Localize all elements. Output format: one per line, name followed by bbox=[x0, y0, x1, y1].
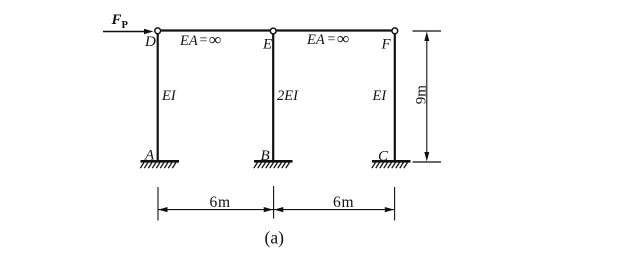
hinge at D bbox=[155, 28, 161, 34]
svg-text:A: A bbox=[144, 148, 155, 164]
vertical dimension 9m: extension ticks bbox=[413, 30, 442, 32]
svg-text:EI: EI bbox=[161, 88, 177, 104]
svg-text:P: P bbox=[122, 20, 129, 31]
arrowheads for first 6m span bbox=[158, 207, 167, 212]
svg-text:6m: 6m bbox=[333, 194, 354, 211]
svg-text:9m: 9m bbox=[414, 85, 430, 105]
svg-text:EA: EA bbox=[306, 32, 325, 48]
column D-A bbox=[157, 30, 159, 161]
svg-text:=: = bbox=[200, 33, 208, 48]
force FP arrow bbox=[103, 31, 146, 33]
column F-C bbox=[394, 30, 396, 161]
svg-text:F: F bbox=[381, 37, 392, 53]
svg-text:∞: ∞ bbox=[209, 30, 221, 49]
beam D-E-F (EA=infinity) bbox=[156, 29, 396, 31]
svg-text:EI: EI bbox=[372, 88, 388, 104]
svg-text:F: F bbox=[111, 12, 122, 28]
svg-text:E: E bbox=[262, 37, 272, 53]
vertical dimension 9m: line and arrows bbox=[426, 34, 428, 158]
ground support at A bbox=[140, 161, 179, 168]
svg-text:∞: ∞ bbox=[337, 29, 349, 48]
bottom dimension extension ticks bbox=[157, 187, 159, 221]
svg-text:2EI: 2EI bbox=[277, 88, 299, 104]
svg-text:B: B bbox=[261, 148, 270, 164]
ground support at B bbox=[254, 161, 293, 168]
svg-text:(a): (a) bbox=[265, 228, 285, 248]
hinge at E bbox=[270, 28, 276, 34]
svg-text:6m: 6m bbox=[210, 194, 231, 211]
svg-text:EA: EA bbox=[179, 33, 198, 49]
bottom dimension line 6m + 6m bbox=[158, 209, 395, 211]
column E-B bbox=[272, 30, 274, 161]
arrowheads for second 6m span bbox=[274, 207, 283, 212]
svg-text:D: D bbox=[144, 34, 156, 50]
svg-text:=: = bbox=[328, 32, 336, 47]
hinge at F bbox=[392, 28, 398, 34]
ground support at C bbox=[372, 161, 411, 168]
svg-text:C: C bbox=[378, 149, 389, 165]
